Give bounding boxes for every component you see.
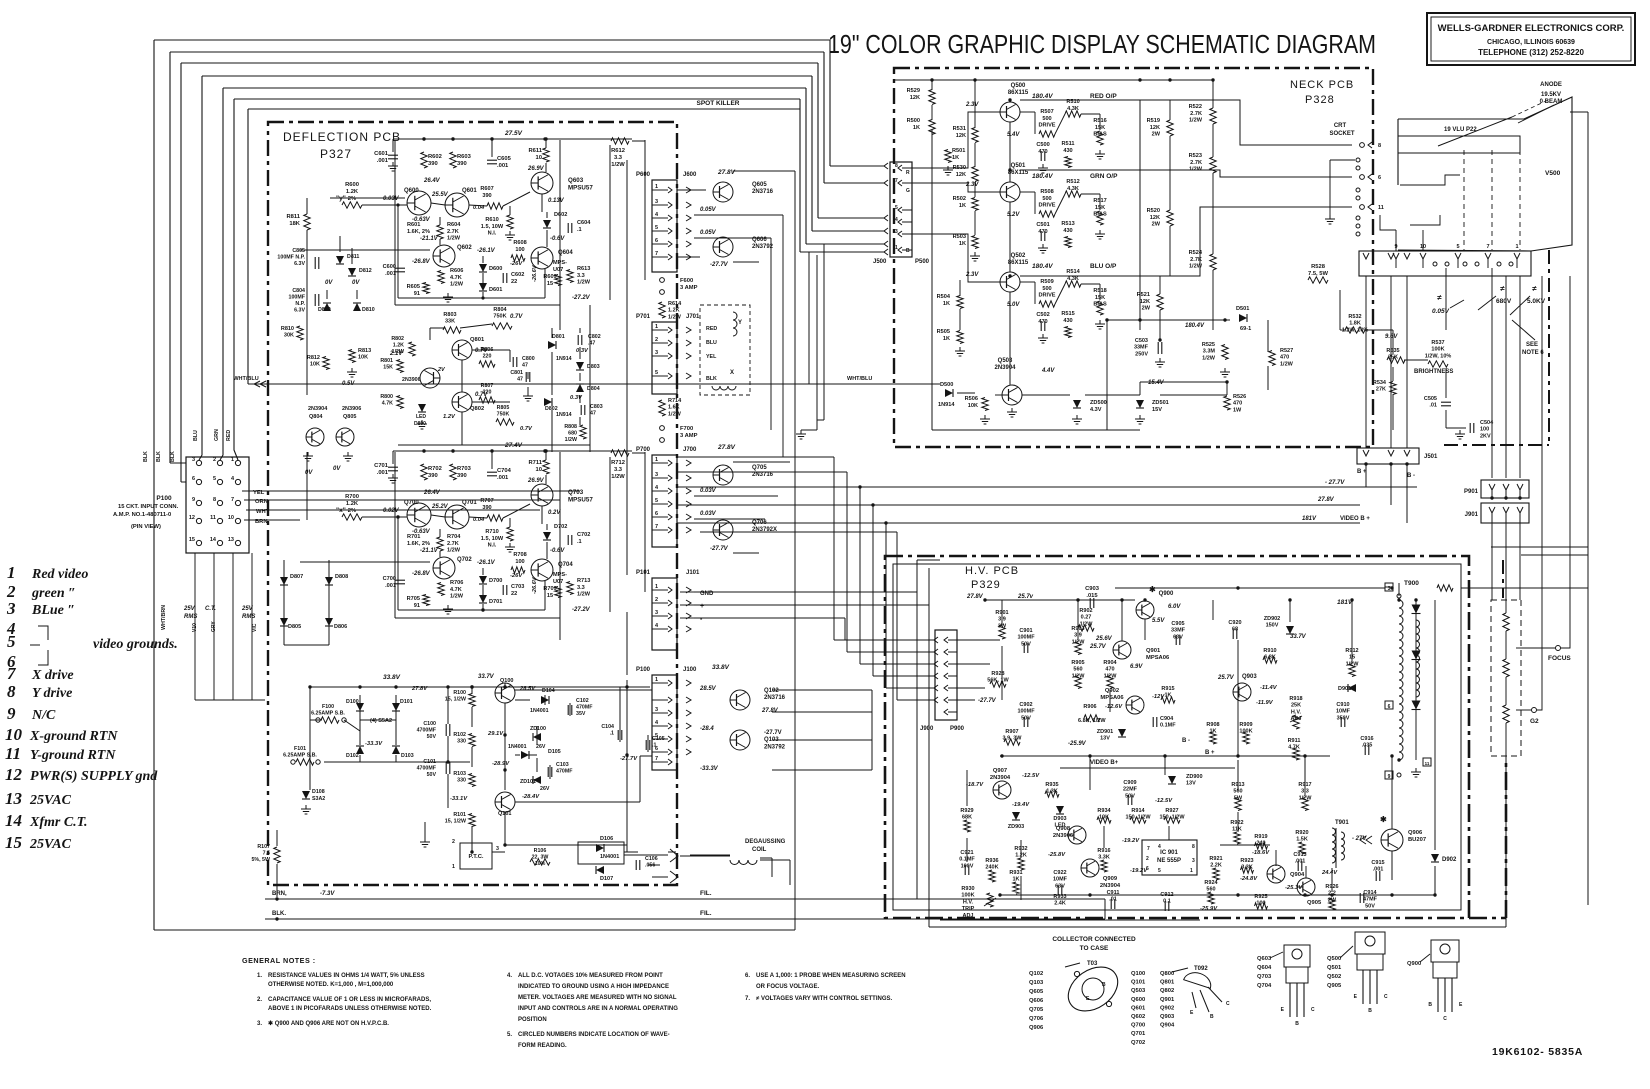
svg-text:D501: D501 (1236, 306, 1249, 312)
svg-text:F600: F600 (680, 278, 693, 284)
svg-text:Q602: Q602 (457, 245, 472, 251)
svg-text:3: 3 (192, 457, 195, 463)
svg-text:11: 11 (210, 515, 216, 521)
svg-text:250V: 250V (1135, 351, 1148, 357)
svg-text:.01: .01 (1109, 897, 1117, 903)
svg-text:R529: R529 (907, 88, 920, 94)
svg-text:R103: R103 (453, 771, 466, 777)
svg-text:NECK PCB: NECK PCB (1290, 79, 1354, 91)
svg-text:VIDEO B+: VIDEO B+ (1090, 760, 1119, 766)
svg-text:500: 500 (1042, 196, 1051, 202)
svg-text:7: 7 (231, 497, 234, 503)
svg-text:D700: D700 (489, 578, 502, 584)
svg-text:4.7K: 4.7K (450, 275, 462, 281)
svg-text:C902: C902 (1019, 702, 1032, 708)
svg-text:R919: R919 (1254, 834, 1267, 840)
svg-text:33MF: 33MF (1134, 345, 1149, 351)
svg-text:C700: C700 (383, 576, 396, 582)
svg-text:R521: R521 (1137, 292, 1150, 298)
svg-text:Q802: Q802 (1160, 988, 1174, 994)
svg-text:27.8V: 27.8V (761, 708, 779, 714)
svg-text:SPOT KILLER: SPOT KILLER (697, 100, 740, 107)
svg-text:2W: 2W (1152, 132, 1161, 138)
svg-text:2.7K: 2.7K (1190, 257, 1202, 263)
svg-text:8: 8 (1192, 844, 1195, 850)
svg-text:B: B (1210, 1014, 1214, 1020)
svg-text:Q805: Q805 (343, 414, 356, 420)
svg-text:Q802: Q802 (470, 406, 484, 412)
svg-text:R509: R509 (1040, 279, 1053, 285)
svg-text:P328: P328 (1305, 94, 1335, 106)
svg-text:BLK: BLK (143, 451, 149, 462)
svg-text:D108: D108 (312, 789, 325, 795)
svg-text:D805: D805 (288, 624, 301, 630)
svg-text:-27.7V: -27.7V (710, 262, 729, 268)
svg-text:0.1MF: 0.1MF (1160, 723, 1176, 729)
svg-text:CAPACITANCE VALUE OF 1 OR LE: CAPACITANCE VALUE OF 1 OR LESS IN MICROF… (268, 997, 431, 1003)
svg-text:Q702: Q702 (457, 557, 472, 563)
svg-text:11: 11 (5, 744, 21, 763)
svg-text:86X115: 86X115 (1008, 260, 1029, 266)
svg-text:R907: R907 (1005, 729, 1018, 735)
svg-text:63V: 63V (1173, 634, 1183, 640)
svg-text:2.: 2. (257, 997, 262, 1003)
svg-text:680: 680 (568, 431, 577, 437)
svg-text:R527: R527 (1280, 348, 1293, 354)
svg-text:Q603: Q603 (568, 177, 584, 184)
svg-text:47: 47 (517, 377, 523, 383)
svg-text:-24.8V: -24.8V (1240, 876, 1258, 882)
svg-text:12K: 12K (1140, 299, 1150, 305)
svg-text:Q801: Q801 (470, 337, 485, 343)
svg-text:0.13V: 0.13V (548, 198, 565, 204)
svg-text:2N3716: 2N3716 (752, 472, 774, 478)
svg-text:9: 9 (1388, 774, 1391, 780)
svg-text:MPSU57: MPSU57 (568, 184, 593, 191)
svg-text:R805: R805 (497, 405, 510, 411)
svg-text:2N3904: 2N3904 (308, 406, 328, 412)
svg-text:0.3V: 0.3V (570, 395, 583, 401)
svg-text:C801: C801 (510, 370, 523, 376)
svg-text:1: 1 (1190, 868, 1193, 874)
svg-text:CHICAGO, ILLINOIS 60639: CHICAGO, ILLINOIS 60639 (1487, 39, 1575, 46)
svg-text:-25.9V: -25.9V (1200, 906, 1218, 912)
svg-text:12: 12 (5, 765, 23, 784)
svg-text:R704: R704 (447, 534, 461, 540)
svg-text:R808: R808 (564, 424, 577, 430)
svg-text:C703: C703 (511, 584, 524, 590)
svg-text:1N4001: 1N4001 (508, 744, 527, 750)
svg-text:R610: R610 (485, 217, 498, 223)
svg-text:180.4V: 180.4V (1032, 93, 1053, 100)
svg-text:12K: 12K (956, 133, 966, 139)
svg-text:TRIP: TRIP (962, 906, 975, 912)
svg-text:1.6K, 2%: 1.6K, 2% (407, 541, 430, 547)
svg-text:2.3V: 2.3V (965, 102, 979, 108)
svg-text:C805: C805 (292, 248, 305, 254)
svg-text:B: B (1102, 982, 1106, 988)
svg-text:R911: R911 (1288, 738, 1301, 744)
svg-text:P101: P101 (636, 570, 651, 576)
svg-text:C103: C103 (556, 762, 569, 768)
svg-text:P100: P100 (156, 495, 172, 502)
svg-text:2N3904: 2N3904 (1100, 883, 1121, 889)
svg-text:6.25AMP S.B.: 6.25AMP S.B. (283, 753, 317, 759)
svg-text:330: 330 (457, 778, 466, 784)
svg-text:C: C (1226, 1001, 1230, 1007)
svg-text:Q101: Q101 (1131, 980, 1146, 986)
svg-text:Y drive: Y drive (32, 686, 72, 701)
svg-text:R813: R813 (358, 348, 371, 354)
svg-text:J501: J501 (1424, 454, 1438, 460)
svg-text:Y-ground RTN: Y-ground RTN (30, 748, 116, 763)
svg-text:2.4K: 2.4K (1054, 901, 1066, 907)
svg-text:R512: R512 (1066, 179, 1079, 185)
svg-text:3: 3 (655, 707, 658, 713)
svg-text:Q600: Q600 (1131, 997, 1145, 1003)
svg-text:.1: .1 (610, 731, 614, 737)
svg-text:D801: D801 (552, 334, 565, 340)
svg-text:-27.2V: -27.2V (572, 607, 591, 613)
svg-text:50V: 50V (427, 734, 437, 740)
svg-text:1.: 1. (257, 973, 262, 979)
svg-text:5: 5 (895, 205, 898, 211)
svg-text:R920: R920 (1295, 830, 1308, 836)
svg-text:2N3906: 2N3906 (402, 377, 421, 383)
svg-text:5: 5 (655, 498, 658, 504)
svg-text:Q804: Q804 (309, 414, 323, 420)
svg-text:R607: R607 (480, 186, 493, 192)
svg-text:12K: 12K (1150, 215, 1160, 221)
svg-text:≠: ≠ (1500, 284, 1505, 293)
svg-text:-33.3V: -33.3V (700, 766, 719, 772)
svg-text:-28.4V: -28.4V (522, 794, 540, 800)
svg-text:BLK: BLK (706, 376, 717, 382)
svg-text:.001: .001 (377, 158, 389, 164)
svg-text:ADJ: ADJ (962, 913, 973, 919)
svg-text:1/2W: 1/2W (1299, 795, 1313, 801)
svg-text:VIC: VIC (252, 623, 258, 632)
svg-text:R914: R914 (1131, 808, 1145, 814)
svg-text:ZD100: ZD100 (530, 726, 546, 732)
svg-text:5.: 5. (507, 1032, 512, 1038)
svg-text:6.0V: 6.0V (1168, 604, 1181, 610)
svg-text:J500: J500 (873, 259, 887, 265)
svg-text:R710: R710 (485, 529, 498, 535)
svg-text:Q103: Q103 (764, 737, 779, 743)
svg-text:R531: R531 (953, 126, 966, 132)
svg-text:BLU: BLU (193, 430, 199, 441)
svg-text:-26.6V: -26.6V (532, 576, 538, 594)
svg-text:7: 7 (895, 178, 898, 184)
svg-text:0.03V: 0.03V (700, 488, 717, 494)
svg-text:500: 500 (1042, 116, 1051, 122)
svg-text:R807: R807 (481, 383, 494, 389)
svg-text:-26.8V: -26.8V (412, 259, 431, 265)
svg-text:ZD901: ZD901 (1097, 729, 1114, 735)
svg-text:100: 100 (515, 247, 524, 253)
svg-text:-18.6V: -18.6V (1252, 850, 1270, 856)
svg-text:15: 15 (5, 833, 23, 852)
svg-text:5%, 5W: 5%, 5W (251, 857, 270, 863)
svg-text:D100: D100 (346, 699, 359, 705)
svg-text:F101: F101 (294, 746, 306, 752)
svg-text:B: B (1428, 1002, 1432, 1008)
svg-text:1K: 1K (943, 301, 950, 307)
svg-text:NOTE 6: NOTE 6 (1522, 350, 1544, 356)
svg-text:1/2W: 1/2W (577, 592, 591, 598)
svg-text:C804: C804 (292, 288, 305, 294)
svg-text:Q503: Q503 (1131, 988, 1146, 994)
svg-text:ALL D.C. VOTAGES 10% MEASU: ALL D.C. VOTAGES 10% MEASURED FROM POINT (518, 973, 663, 979)
svg-text:Q704: Q704 (1257, 983, 1272, 989)
svg-text:R513: R513 (1061, 221, 1074, 227)
svg-text:USE A 1,000: 1 PROBE WHEN ME: USE A 1,000: 1 PROBE WHEN MEASURING SCRE… (756, 973, 906, 979)
svg-text:69-1: 69-1 (1240, 326, 1251, 332)
svg-text:-27.2V: -27.2V (572, 295, 591, 301)
svg-text:R804: R804 (493, 307, 507, 313)
svg-text:D702: D702 (554, 524, 567, 530)
svg-text:R924: R924 (1204, 880, 1218, 886)
svg-text:C903: C903 (1085, 586, 1100, 592)
svg-text:7: 7 (1147, 846, 1150, 852)
svg-text:R706: R706 (450, 580, 463, 586)
svg-text:560: 560 (1073, 667, 1082, 673)
svg-text:27.8V: 27.8V (411, 686, 428, 692)
svg-text:Q500: Q500 (1011, 83, 1026, 89)
svg-text:T03: T03 (1087, 961, 1098, 967)
svg-text:-26V: -26V (510, 573, 523, 579)
svg-text:R905: R905 (1071, 660, 1084, 666)
svg-text:.001: .001 (385, 583, 396, 589)
svg-text:VIDEO B +: VIDEO B + (1340, 516, 1370, 522)
svg-text:1.6K: 1.6K (668, 405, 680, 411)
svg-text:-7.3V: -7.3V (320, 891, 335, 897)
svg-text:B -: B - (1407, 473, 1415, 479)
svg-text:R519: R519 (1147, 118, 1160, 124)
svg-text:R707: R707 (480, 498, 493, 504)
svg-text:RED: RED (706, 326, 717, 332)
svg-text:19 VLU P22: 19 VLU P22 (1444, 127, 1477, 133)
svg-text:4: 4 (895, 217, 898, 223)
svg-text:15K: 15K (383, 365, 393, 371)
svg-text:26.9V: 26.9V (527, 166, 545, 172)
svg-text:12K: 12K (910, 95, 920, 101)
svg-text:22MF: 22MF (1123, 787, 1138, 793)
svg-text:2N3906: 2N3906 (342, 406, 361, 412)
svg-text:470MF: 470MF (576, 705, 593, 711)
svg-text:J101: J101 (686, 570, 700, 576)
svg-text:C605: C605 (497, 156, 512, 162)
svg-text:R537: R537 (1431, 340, 1444, 346)
svg-text:0.3V: 0.3V (576, 348, 589, 354)
svg-text:680V: 680V (1496, 298, 1512, 305)
svg-text:Q901: Q901 (1146, 648, 1161, 654)
svg-text:D810: D810 (362, 307, 375, 313)
svg-text:Q902: Q902 (1105, 688, 1119, 694)
svg-text:12K: 12K (956, 172, 966, 178)
svg-text:-12.5V: -12.5V (1022, 773, 1040, 779)
svg-text:R107: R107 (257, 844, 270, 850)
svg-text:2: 2 (655, 597, 658, 603)
svg-text:3.3: 3.3 (577, 273, 585, 279)
svg-text:Y: Y (738, 320, 742, 326)
svg-text:FIL.: FIL. (700, 910, 712, 917)
svg-text:470: 470 (1038, 229, 1047, 235)
svg-text:Q700: Q700 (1131, 1023, 1145, 1029)
svg-text:C800: C800 (522, 356, 535, 362)
svg-text:13: 13 (228, 537, 234, 543)
svg-text:-26.1V: -26.1V (477, 248, 496, 254)
svg-text:2: 2 (213, 457, 216, 463)
svg-text:3: 3 (655, 199, 658, 205)
svg-text:P900: P900 (950, 726, 965, 732)
svg-text:C: C (1384, 994, 1388, 1000)
svg-text:1.2K: 1.2K (393, 343, 404, 349)
svg-text:J100: J100 (683, 667, 697, 673)
svg-text:R927: R927 (1165, 808, 1178, 814)
svg-text:7: 7 (655, 524, 658, 530)
svg-text:8: 8 (895, 163, 898, 169)
svg-text:R713: R713 (577, 578, 590, 584)
svg-text:470: 470 (1280, 355, 1289, 361)
svg-text:Q103: Q103 (1029, 980, 1044, 986)
svg-text:6.3V: 6.3V (294, 308, 305, 314)
svg-text:10MF: 10MF (1336, 709, 1351, 715)
svg-text:Q102: Q102 (764, 688, 779, 694)
svg-text:9: 9 (192, 497, 195, 503)
svg-text:WELLS-GARDNER ELECTRONICS CORP: WELLS-GARDNER ELECTRONICS CORP. (1438, 23, 1625, 34)
svg-text:FOCUS: FOCUS (1548, 655, 1571, 662)
svg-text:7.5, 5W: 7.5, 5W (1308, 271, 1329, 277)
svg-text:26V: 26V (540, 786, 550, 792)
svg-text:8: 8 (1378, 143, 1381, 149)
svg-text:BIAS: BIAS (1093, 132, 1107, 138)
svg-text:180.4V: 180.4V (1185, 323, 1205, 329)
svg-text:SOCKET: SOCKET (1329, 131, 1354, 137)
svg-text:R929: R929 (960, 808, 973, 814)
svg-text:D102: D102 (346, 753, 359, 759)
svg-text:180.4V: 180.4V (1032, 263, 1053, 270)
svg-text:14: 14 (5, 811, 22, 830)
svg-text:C503: C503 (1135, 338, 1148, 344)
svg-text:ZD902: ZD902 (1264, 616, 1281, 622)
svg-text:N/C: N/C (31, 708, 56, 723)
svg-text:✱ Q900 AND Q906 ARE NOT ON H.V: ✱ Q900 AND Q906 ARE NOT ON H.V.P.C.B. (268, 1020, 389, 1027)
svg-text:MPSU57: MPSU57 (568, 496, 593, 503)
svg-text:1W: 1W (1233, 407, 1242, 413)
svg-text:15 CKT. INPUT CONN.: 15 CKT. INPUT CONN. (118, 504, 179, 510)
svg-text:47: 47 (522, 363, 528, 369)
svg-text:Q603: Q603 (1257, 956, 1272, 962)
svg-text:1: 1 (655, 324, 658, 330)
svg-text:4700MF: 4700MF (417, 728, 437, 734)
svg-text:R802: R802 (391, 336, 404, 342)
svg-text:P329: P329 (971, 579, 1001, 591)
svg-text:0.27: 0.27 (1081, 615, 1092, 621)
svg-text:T900: T900 (1404, 580, 1419, 587)
svg-text:N.P.: N.P. (295, 301, 305, 307)
svg-text:6: 6 (655, 238, 658, 244)
svg-text:C: C (1311, 1007, 1315, 1013)
svg-text:19" COLOR GRAPHIC DISPLAY: 19" COLOR GRAPHIC DISPLAY SCHEMATIC DIAG… (828, 29, 1376, 59)
svg-text:22, 3W: 22, 3W (532, 855, 549, 861)
svg-text:✱: ✱ (1149, 585, 1156, 594)
svg-text:R522: R522 (1189, 104, 1202, 110)
svg-text:COLLECTOR CONNECTED: COLLECTOR CONNECTED (1052, 936, 1136, 943)
svg-text:R908: R908 (1206, 722, 1219, 728)
svg-text:BLU: BLU (706, 340, 717, 346)
svg-text:0.05V: 0.05V (700, 207, 717, 213)
svg-text:-26.6V: -26.6V (532, 264, 538, 282)
svg-text:BU207: BU207 (1408, 837, 1426, 843)
svg-text:2.7K: 2.7K (1190, 160, 1202, 166)
svg-text:R507: R507 (1040, 109, 1053, 115)
svg-text:Q800: Q800 (1160, 971, 1174, 977)
svg-text:R514: R514 (1066, 269, 1080, 275)
svg-text:1/2W, 10%: 1/2W, 10% (1425, 353, 1452, 359)
svg-text:R910: R910 (1263, 648, 1276, 654)
svg-text:R611: R611 (528, 148, 542, 154)
svg-text:-11.4V: -11.4V (1260, 685, 1278, 691)
svg-text:1/2W: 1/2W (450, 282, 464, 288)
svg-text:1N4001: 1N4001 (530, 708, 549, 714)
svg-text:BLK: BLK (156, 451, 162, 462)
svg-text:1K: 1K (952, 155, 959, 161)
svg-text:-28.4: -28.4 (700, 726, 714, 732)
svg-text:RED: RED (226, 430, 232, 441)
svg-text:4: 4 (1158, 844, 1161, 850)
svg-text:5.0KV: 5.0KV (1527, 298, 1546, 305)
svg-text:15.4V: 15.4V (1148, 380, 1165, 386)
svg-text:D101: D101 (400, 699, 413, 705)
svg-text:750K: 750K (493, 314, 506, 320)
svg-text:D809: D809 (318, 307, 331, 313)
svg-text:390: 390 (428, 161, 438, 167)
svg-text:R705: R705 (407, 596, 420, 602)
svg-text:P500: P500 (915, 259, 930, 265)
svg-text:1/2W: 1/2W (1189, 118, 1203, 124)
svg-text:50V: 50V (1365, 903, 1375, 909)
svg-text:2N3904: 2N3904 (990, 775, 1011, 781)
svg-text:R600: R600 (345, 182, 359, 188)
svg-text:.001: .001 (1373, 867, 1384, 873)
svg-text:19K6102- 5835A: 19K6102- 5835A (1492, 1046, 1583, 1058)
svg-text:-27.7V: -27.7V (764, 730, 782, 736)
svg-text:6: 6 (1388, 704, 1391, 710)
svg-text:28.5V: 28.5V (519, 686, 536, 692)
svg-text:T901: T901 (1335, 820, 1349, 826)
svg-text:D602: D602 (554, 212, 567, 218)
svg-text:+: + (700, 603, 704, 610)
svg-text:DRIVE: DRIVE (1038, 123, 1055, 129)
svg-text:1: 1 (655, 184, 658, 190)
svg-text:.001: .001 (385, 271, 396, 277)
svg-text:0.05V: 0.05V (700, 230, 717, 236)
svg-text:Q503: Q503 (998, 358, 1013, 364)
svg-text:R935: R935 (1045, 782, 1058, 788)
svg-text:33.7V: 33.7V (478, 674, 495, 680)
svg-text:500: 500 (1042, 286, 1051, 292)
svg-text:47MF: 47MF (1363, 897, 1378, 903)
svg-text:R524: R524 (1189, 250, 1203, 256)
svg-text:Q909: Q909 (1103, 876, 1118, 882)
svg-text:3: 3 (496, 846, 499, 852)
svg-text:1K: 1K (1164, 693, 1171, 699)
svg-text:1: 1 (655, 677, 658, 683)
svg-text:R100: R100 (453, 690, 466, 696)
svg-text:1/2W: 1/2W (1280, 361, 1294, 367)
